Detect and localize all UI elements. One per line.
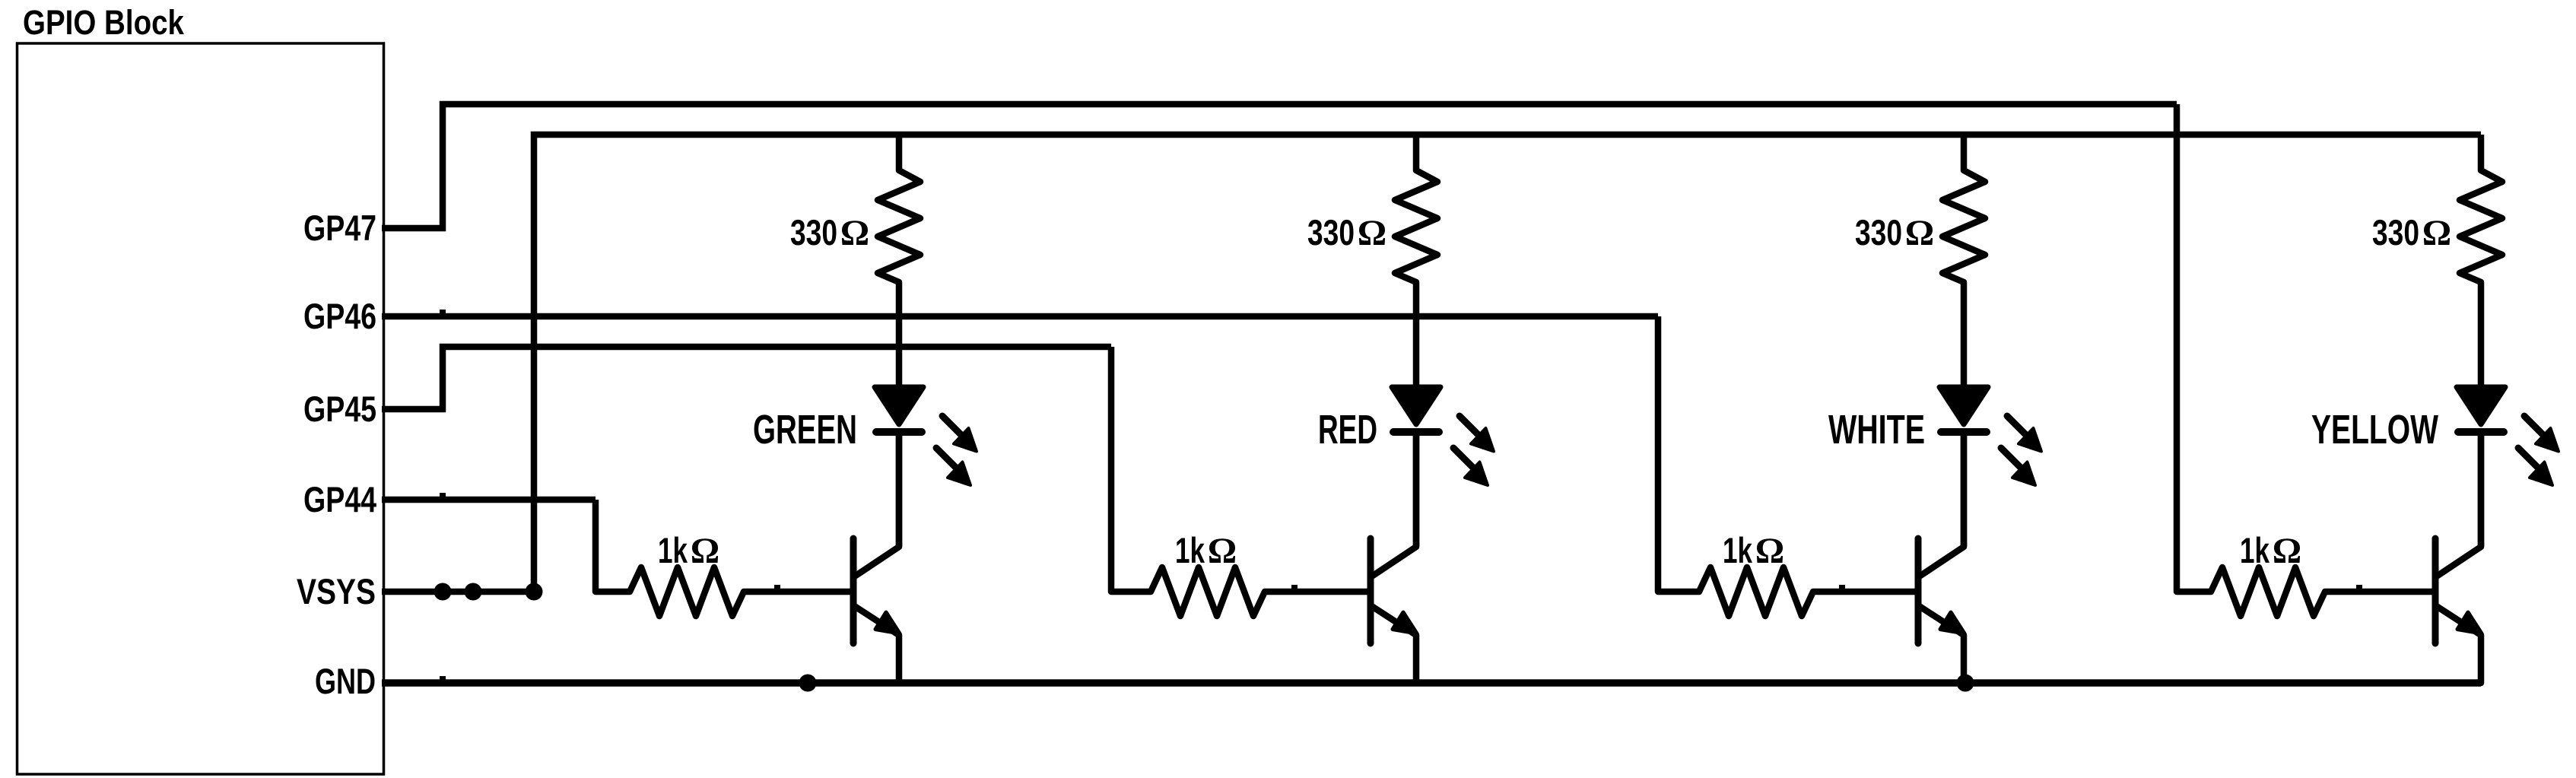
svg-text:GP45: GP45 bbox=[303, 389, 376, 429]
junction dot VSYS b bbox=[465, 583, 482, 601]
LED D2 light emission arrows bbox=[1453, 416, 1494, 485]
LED D1 GREEN symbol bbox=[875, 387, 923, 547]
svg-text:1k: 1k bbox=[1723, 530, 1753, 570]
resistor R5 1kohm base resistor (stage GREEN) bbox=[596, 500, 853, 616]
svg-text:Ω: Ω bbox=[1905, 213, 1934, 253]
wire GP46: pin bus to stage 3 drop bbox=[382, 313, 1658, 320]
svg-text:1k: 1k bbox=[658, 530, 688, 570]
wire GP45: pin to bus, across to stage 2 drop bbox=[382, 347, 1111, 409]
GPIO block U1 outline bbox=[17, 43, 384, 774]
wire GND rail bbox=[382, 679, 2481, 687]
svg-text:GP44: GP44 bbox=[303, 479, 376, 519]
resistor R8 1kohm base resistor (stage YELLOW) bbox=[2177, 104, 2435, 616]
wire end stub at base wire (YELLOW) bbox=[2356, 585, 2362, 591]
svg-text:GPIO Block: GPIO Block bbox=[23, 3, 185, 42]
wire GP47: pin to top bus, across to stage 4 drop bbox=[382, 104, 2177, 228]
junction dot VSYS riser bbox=[526, 583, 543, 601]
LED D3 WHITE symbol bbox=[1939, 387, 1988, 547]
LED D4 YELLOW symbol bbox=[2457, 387, 2505, 547]
transistor Q3 NPN (stage WHITE) bbox=[1918, 435, 1965, 683]
svg-text:1k: 1k bbox=[1175, 530, 1205, 570]
svg-text:Ω: Ω bbox=[1358, 213, 1386, 253]
junction dot VSYS a bbox=[434, 583, 452, 601]
svg-text:Ω: Ω bbox=[1755, 531, 1784, 571]
transistor Q4 NPN (stage YELLOW) bbox=[2435, 435, 2482, 683]
svg-text:Ω: Ω bbox=[2273, 531, 2301, 571]
resistor R2 330ohm (stage RED) bbox=[1395, 135, 1437, 385]
wire end stub at base wire (GREEN) bbox=[774, 585, 780, 591]
svg-text:330: 330 bbox=[1307, 212, 1355, 252]
svg-text:Ω: Ω bbox=[691, 531, 719, 571]
svg-text:RED: RED bbox=[1318, 407, 1377, 453]
resistor R3 330ohm (stage WHITE) bbox=[1942, 135, 1985, 385]
svg-text:330: 330 bbox=[1855, 212, 1902, 252]
svg-text:330: 330 bbox=[790, 212, 837, 252]
svg-text:GREEN: GREEN bbox=[753, 407, 857, 453]
svg-text:YELLOW: YELLOW bbox=[2311, 407, 2438, 453]
junction dot GND at Q3 emitter bbox=[1957, 675, 1974, 692]
svg-text:GND: GND bbox=[315, 661, 376, 701]
resistor R1 330ohm (stage GREEN) bbox=[878, 135, 920, 385]
resistor R4 330ohm (stage YELLOW) bbox=[2460, 135, 2502, 385]
LED D2 RED symbol bbox=[1392, 387, 1440, 547]
wire GP44: pin toward stage 1 drop bbox=[382, 497, 596, 503]
svg-text:330: 330 bbox=[2372, 212, 2419, 252]
LED D1 light emission arrows bbox=[936, 416, 977, 485]
transistor Q1 NPN (stage GREEN) bbox=[853, 435, 900, 683]
svg-text:GP46: GP46 bbox=[303, 296, 376, 336]
svg-text:GP47: GP47 bbox=[303, 208, 376, 248]
transistor Q2 NPN (stage RED) bbox=[1371, 435, 1417, 683]
wire end stub at base wire (WHITE) bbox=[1839, 585, 1845, 591]
wire VSYS: pin to riser and top supply bus feeding all 330R bbox=[382, 135, 2481, 592]
LED D4 light emission arrows bbox=[2518, 416, 2559, 485]
junction dot GND near Q1 bbox=[799, 675, 817, 692]
resistor R6 1kohm base resistor (stage RED) bbox=[1111, 347, 1371, 616]
svg-text:1k: 1k bbox=[2240, 530, 2270, 570]
svg-text:VSYS: VSYS bbox=[297, 571, 376, 611]
svg-text:Ω: Ω bbox=[2422, 213, 2451, 253]
wire end stubs bbox=[440, 310, 446, 316]
svg-text:WHITE: WHITE bbox=[1828, 407, 1925, 453]
LED D3 light emission arrows bbox=[2001, 416, 2041, 485]
resistor R7 1kohm base resistor (stage WHITE) bbox=[1658, 316, 1918, 616]
svg-text:Ω: Ω bbox=[1208, 531, 1237, 571]
svg-text:Ω: Ω bbox=[840, 213, 869, 253]
wire end stub at base wire (RED) bbox=[1291, 585, 1298, 591]
